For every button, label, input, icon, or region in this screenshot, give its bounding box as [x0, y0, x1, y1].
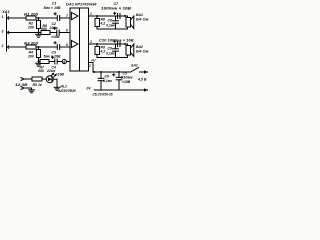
wire output 2	[89, 43, 128, 45]
svg-text:АЛ307БМ: АЛ307БМ	[57, 89, 76, 93]
ground	[36, 33, 42, 38]
wire	[36, 46, 57, 48]
capacitor C7	[114, 12, 120, 18]
node junction out2	[96, 43, 98, 45]
wire rail 1	[97, 28, 128, 30]
capacitor C6	[98, 71, 104, 90]
wire +U pin 2	[89, 63, 94, 73]
wire ground line from XA1 pin 3	[9, 32, 41, 34]
node junction gnd 2	[37, 60, 39, 62]
svg-text:8/4 Ом: 8/4 Ом	[136, 18, 149, 22]
wire	[53, 79, 57, 87]
svg-text:2: 2	[88, 64, 91, 68]
wire	[59, 32, 70, 34]
node junction supply	[93, 71, 95, 73]
capacitor C9	[113, 44, 119, 58]
node junction out1	[96, 15, 98, 17]
connector XA1	[7, 14, 9, 51]
ground	[36, 62, 42, 67]
svg-text:3: 3	[2, 30, 4, 34]
wire	[49, 61, 54, 63]
resistor R9	[95, 44, 100, 58]
wire output 1	[89, 15, 128, 17]
terminal power input +	[21, 78, 32, 81]
svg-text:R5 1к: R5 1к	[33, 83, 42, 87]
resistor R8	[95, 16, 100, 29]
svg-text:C9: C9	[108, 47, 112, 51]
wire input line 2	[9, 46, 26, 48]
svg-text:1: 1	[90, 12, 92, 16]
svg-text:3: 3	[90, 40, 92, 44]
svg-text:XA1: XA1	[1, 9, 11, 14]
resistor R5	[32, 77, 42, 81]
svg-text:7: 7	[66, 14, 68, 18]
op-amp triangle channel 1	[71, 12, 78, 19]
svg-text:0,1мк: 0,1мк	[106, 23, 115, 27]
svg-text:SA1: SA1	[131, 63, 138, 67]
node speaker2 terminal dot	[124, 43, 126, 45]
capacitor C4	[52, 56, 58, 64]
node speaker1 terminal dot	[124, 15, 126, 17]
svg-text:200: 200	[27, 25, 34, 29]
svg-text:22мк: 22мк	[49, 26, 58, 30]
capacitor C5	[113, 71, 122, 90]
resistor R4	[37, 47, 41, 62]
op-amp U1 (IC DA1 box)	[70, 8, 89, 71]
capacitor C8	[113, 16, 119, 29]
svg-text:DA1 КР174УН34: DA1 КР174УН34	[66, 2, 97, 6]
resistor R3	[26, 45, 36, 49]
wire	[36, 17, 57, 19]
terminal minus	[144, 89, 149, 91]
svg-text:0,1мк: 0,1мк	[106, 51, 115, 55]
svg-text:4,5 В: 4,5 В	[137, 77, 147, 81]
svg-text:0,1мк: 0,1мк	[103, 79, 112, 83]
svg-text:C8: C8	[108, 19, 112, 23]
wire	[50, 32, 56, 34]
wire	[60, 17, 70, 19]
wire	[66, 61, 70, 63]
svg-text:BA2: BA2	[136, 45, 143, 49]
wire rail 2	[97, 57, 128, 59]
svg-text:8: 8	[66, 28, 68, 32]
resistor R1	[26, 16, 36, 20]
wire supply rail	[93, 71, 131, 73]
svg-text:22мк: 22мк	[46, 69, 55, 73]
svg-text:12,0В: 12,0В	[15, 83, 28, 87]
svg-text:BA1: BA1	[136, 13, 143, 17]
node junction 1	[37, 17, 39, 19]
svg-text:680: 680	[38, 69, 44, 73]
ground	[54, 87, 60, 90]
resistor R2	[37, 18, 41, 33]
svg-text:2: 2	[1, 44, 4, 48]
op-amp triangle channel 2	[71, 40, 78, 47]
wire input line 1	[9, 17, 26, 19]
capacitor C2	[54, 27, 60, 35]
capacitor C1	[54, 13, 60, 21]
svg-text:4,2: 4,2	[100, 50, 106, 54]
svg-text:С5,С6 К50-35: С5,С6 К50-35	[93, 93, 113, 97]
svg-text:C7: C7	[114, 2, 120, 6]
resistor R7	[40, 60, 49, 64]
svg-text:680: 680	[41, 27, 47, 31]
svg-text:5мк × 16В: 5мк × 16В	[44, 6, 61, 10]
resistor R6	[41, 31, 50, 35]
speaker BA2	[126, 44, 134, 58]
svg-text:6: 6	[66, 43, 68, 47]
wire ground rail 0V	[94, 89, 143, 91]
switch SA1	[131, 68, 149, 74]
capacitor C10	[114, 40, 120, 46]
wire	[57, 61, 62, 63]
node junction 2	[37, 46, 39, 48]
svg-text:0V: 0V	[87, 87, 92, 91]
svg-text:200: 200	[27, 54, 34, 58]
ground	[29, 90, 35, 93]
node junction gnd 1	[37, 31, 39, 33]
wire	[42, 78, 46, 80]
wire	[60, 46, 70, 48]
terminal power input -	[21, 87, 32, 90]
svg-text:×16В: ×16В	[122, 80, 131, 84]
svg-text:R1 200: R1 200	[24, 13, 38, 17]
svg-text:1000мк × 16В: 1000мк × 16В	[101, 7, 132, 11]
svg-text:8/4 Ом: 8/4 Ом	[136, 50, 149, 54]
svg-text:+U: +U	[91, 59, 96, 63]
speaker BA1	[126, 16, 134, 29]
svg-text:×16В: ×16В	[56, 73, 65, 77]
svg-text:R3 200: R3 200	[24, 42, 38, 46]
svg-text:C10 1000мк × 16В: C10 1000мк × 16В	[99, 39, 134, 43]
LED HL1	[46, 73, 56, 82]
svg-text:1: 1	[2, 15, 4, 19]
capacitor C3	[54, 42, 60, 50]
svg-text:×16В: ×16В	[51, 35, 60, 39]
node A	[62, 59, 66, 64]
svg-text:4,2: 4,2	[100, 22, 106, 26]
